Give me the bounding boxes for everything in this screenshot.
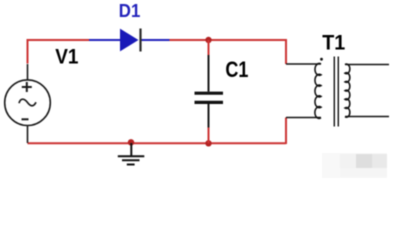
ground [118,143,145,165]
secondary bottom lead [345,116,389,118]
secondary top lead [345,64,389,66]
wire bottom [28,142,287,144]
svg-text:D1: D1 [119,0,141,21]
primary top lead [286,63,321,65]
transformer T1 [286,57,389,127]
diode D1 [89,29,170,52]
svg-text:T1: T1 [322,31,345,55]
node junction at ground [128,139,134,145]
wire right-top vertical [285,39,287,64]
node junction at C1 top [205,37,211,43]
wire right-bottom vertical [285,118,287,145]
core [333,57,335,127]
node junction at C1 bottom [205,140,211,146]
primary coil [315,64,321,119]
wire top-left (V1 top to diode) [28,40,90,64]
svg-text:V1: V1 [55,46,78,69]
source V1 [5,64,51,143]
watermark [322,153,387,178]
svg-text:C1: C1 [225,57,248,82]
polarity dot [320,58,323,61]
wire top (diode to C1 junction to transformer corner) [170,39,287,41]
secondary coil [345,64,350,117]
primary bottom lead [286,117,321,119]
capacitor C1 [195,40,224,143]
